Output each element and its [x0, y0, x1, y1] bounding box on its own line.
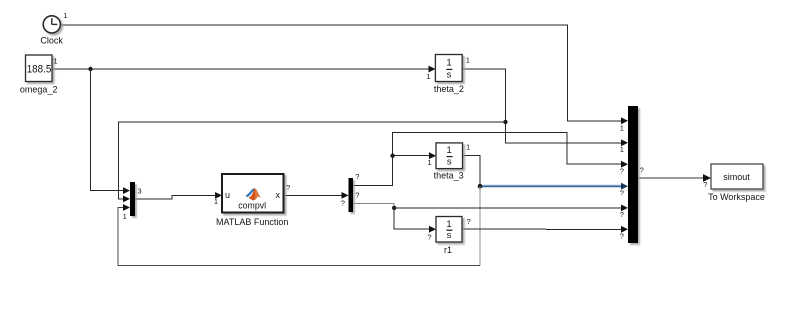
- svg-text:1: 1: [446, 58, 451, 69]
- wire MATLAB Function output x to demux: [284, 194, 343, 196]
- node junction theta_3 input: [390, 154, 394, 158]
- svg-text:?: ?: [341, 198, 345, 207]
- svg-text:1: 1: [446, 219, 451, 230]
- svg-text:Clock: Clock: [40, 36, 63, 46]
- arrowhead big mux input 2: [621, 139, 628, 146]
- wire selected signal blue halo to big mux input 4: [480, 184, 623, 187]
- svg-text:?: ?: [286, 183, 290, 192]
- wire theta_3 feedback vertical gray: [479, 186, 481, 265]
- wire feedback theta_2 to mux input 2: [118, 122, 505, 199]
- svg-text:188.5: 188.5: [27, 64, 52, 76]
- svg-text:?: ?: [620, 210, 624, 219]
- svg-text:r1: r1: [444, 245, 452, 255]
- svg-text:theta_3: theta_3: [434, 171, 464, 181]
- arrowhead theta_3 input: [429, 152, 436, 159]
- wire branch to r1 input: [394, 208, 430, 229]
- arrowhead mux input 1: [123, 187, 130, 194]
- svg-text:?: ?: [620, 232, 624, 241]
- svg-text:3: 3: [138, 187, 142, 196]
- svg-text:1: 1: [63, 11, 67, 20]
- wire demux output 2 stub gray: [353, 204, 394, 208]
- svg-text:To Workspace: To Workspace: [708, 192, 765, 202]
- arrowhead r1 input: [429, 226, 436, 233]
- node junction demux output 2: [392, 206, 396, 210]
- arrowhead big mux input 6: [621, 226, 628, 233]
- node junction theta_2 feedback: [503, 120, 507, 124]
- wire omega_2 to theta_2: [52, 68, 430, 70]
- block theta_3 integrator: [427, 143, 470, 181]
- svg-text:?: ?: [355, 190, 359, 199]
- svg-text:x: x: [276, 190, 281, 200]
- svg-text:1: 1: [54, 56, 58, 65]
- wire theta_3 feedback bottom to mux input 3: [118, 208, 480, 266]
- svg-text:?: ?: [620, 188, 624, 197]
- svg-text:?: ?: [467, 217, 471, 226]
- block To Workspace simout: [703, 164, 765, 202]
- node junction theta_3 output: [478, 184, 483, 189]
- svg-text:?: ?: [703, 180, 707, 189]
- arrowhead big mux input 3: [621, 161, 628, 168]
- svg-text:?: ?: [620, 167, 624, 176]
- arrowhead mux input 2: [123, 196, 130, 203]
- block theta_2 integrator: [426, 55, 470, 94]
- arrowhead demux input: [342, 192, 349, 199]
- svg-text:1: 1: [123, 212, 127, 221]
- wire big mux output to To Workspace: [638, 177, 704, 179]
- demux (1 to 2): [341, 172, 360, 212]
- wire theta_2 output to big mux input 2: [462, 69, 622, 143]
- svg-text:?: ?: [427, 233, 431, 242]
- block r1 integrator: [427, 217, 470, 256]
- svg-text:u: u: [225, 190, 230, 200]
- mux small (3 to 1): [123, 182, 142, 221]
- wire theta_3 output down: [463, 156, 481, 187]
- block omega_2 constant 188.5: [20, 55, 58, 95]
- svg-text:1: 1: [620, 123, 624, 132]
- arrowhead MATLAB Function input u: [215, 192, 222, 199]
- wire Clock to big mux input 1: [60, 25, 621, 121]
- svg-text:compvl: compvl: [238, 201, 266, 211]
- arrowhead theta_2 input: [429, 66, 436, 73]
- svg-text:s: s: [447, 230, 452, 241]
- svg-text:?: ?: [355, 172, 359, 181]
- svg-text:s: s: [447, 69, 452, 80]
- wire selected signal blue core: [480, 185, 623, 187]
- block MATLAB Function compvl: [214, 174, 290, 227]
- wire branch demux output 1 to big mux input 3: [393, 132, 622, 164]
- svg-text:theta_2: theta_2: [434, 84, 464, 94]
- svg-text:?: ?: [640, 165, 644, 174]
- svg-text:1: 1: [447, 145, 452, 156]
- svg-text:omega_2: omega_2: [20, 85, 58, 95]
- arrowhead big mux input 5: [621, 205, 628, 212]
- svg-text:1: 1: [466, 56, 470, 65]
- arrowhead mux input 3: [123, 204, 130, 211]
- svg-text:MATLAB Function: MATLAB Function: [216, 217, 288, 227]
- MATLAB logo: [245, 188, 261, 201]
- arrowhead To Workspace input: [703, 174, 711, 182]
- svg-text:1: 1: [214, 197, 218, 206]
- arrowhead big mux input 4 blue: [621, 183, 628, 190]
- svg-text:s: s: [447, 157, 452, 168]
- arrowhead big mux input 1: [621, 117, 628, 124]
- svg-text:1: 1: [466, 143, 470, 152]
- svg-text:1: 1: [620, 145, 624, 154]
- svg-text:1: 1: [426, 72, 430, 81]
- wire r1 output to big mux input 6: [462, 228, 622, 230]
- node junction omega_2 branch: [88, 67, 92, 71]
- wire branch omega_2 to mux input 1: [91, 69, 125, 191]
- svg-text:1: 1: [427, 158, 431, 167]
- wire demux output 2 to big mux input 5: [394, 207, 621, 209]
- block Clock: [40, 11, 67, 46]
- svg-text:simout: simout: [723, 172, 750, 182]
- wire mux output to MATLAB Function input u: [135, 195, 216, 199]
- big mux (6 to 1): [620, 106, 644, 243]
- wire demux output 1 to theta_3 input: [353, 156, 430, 186]
